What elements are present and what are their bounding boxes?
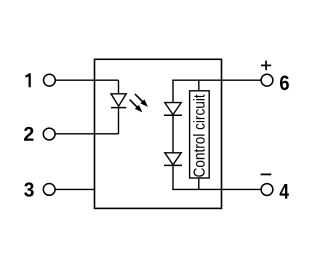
pin 3 terminal circle bbox=[43, 184, 55, 196]
wire top rail to pin 6 bbox=[172, 79, 261, 81]
wire pin3 horizontal bbox=[55, 188, 95, 190]
LED emission arrow 1 bbox=[135, 94, 148, 107]
wire pin1 vertical to LED anode bbox=[118, 80, 120, 94]
pin label 4 bbox=[280, 184, 289, 199]
pin label 6 bbox=[280, 76, 289, 91]
package outline U1 bbox=[95, 59, 222, 208]
LED D1 cathode bar bbox=[111, 107, 126, 109]
wire pin2 horizontal bbox=[55, 133, 118, 135]
pin 6 terminal circle bbox=[261, 74, 273, 86]
control circuit label bbox=[193, 94, 205, 176]
polarity plus sign bbox=[261, 61, 271, 71]
polarity minus sign bbox=[261, 173, 272, 175]
pin label 2 bbox=[24, 127, 34, 141]
wire pin1 horizontal bbox=[55, 79, 118, 81]
pin 1 terminal circle bbox=[44, 74, 56, 86]
photodiode D3 cathode bar bbox=[164, 164, 182, 166]
photodiode D2 triangle bbox=[165, 103, 181, 115]
wire LED cathode down bbox=[118, 108, 120, 134]
wire bottom rail to pin 4 bbox=[172, 188, 261, 190]
LED emission arrow 2 bbox=[130, 100, 143, 113]
pin 2 terminal circle bbox=[43, 128, 55, 140]
control circuit block bbox=[190, 91, 210, 178]
photodiode D3 triangle bbox=[165, 153, 181, 165]
wire control circuit top stub bbox=[198, 80, 200, 91]
pin 4 terminal circle bbox=[261, 184, 273, 196]
wire photodiode chain vertical bbox=[172, 80, 174, 189]
pin label 3 bbox=[24, 182, 34, 196]
pin label 1 bbox=[25, 73, 30, 87]
photodiode D2 cathode bar bbox=[164, 114, 182, 116]
LED D1 triangle bbox=[111, 94, 126, 106]
wire control circuit bottom stub bbox=[198, 178, 200, 189]
